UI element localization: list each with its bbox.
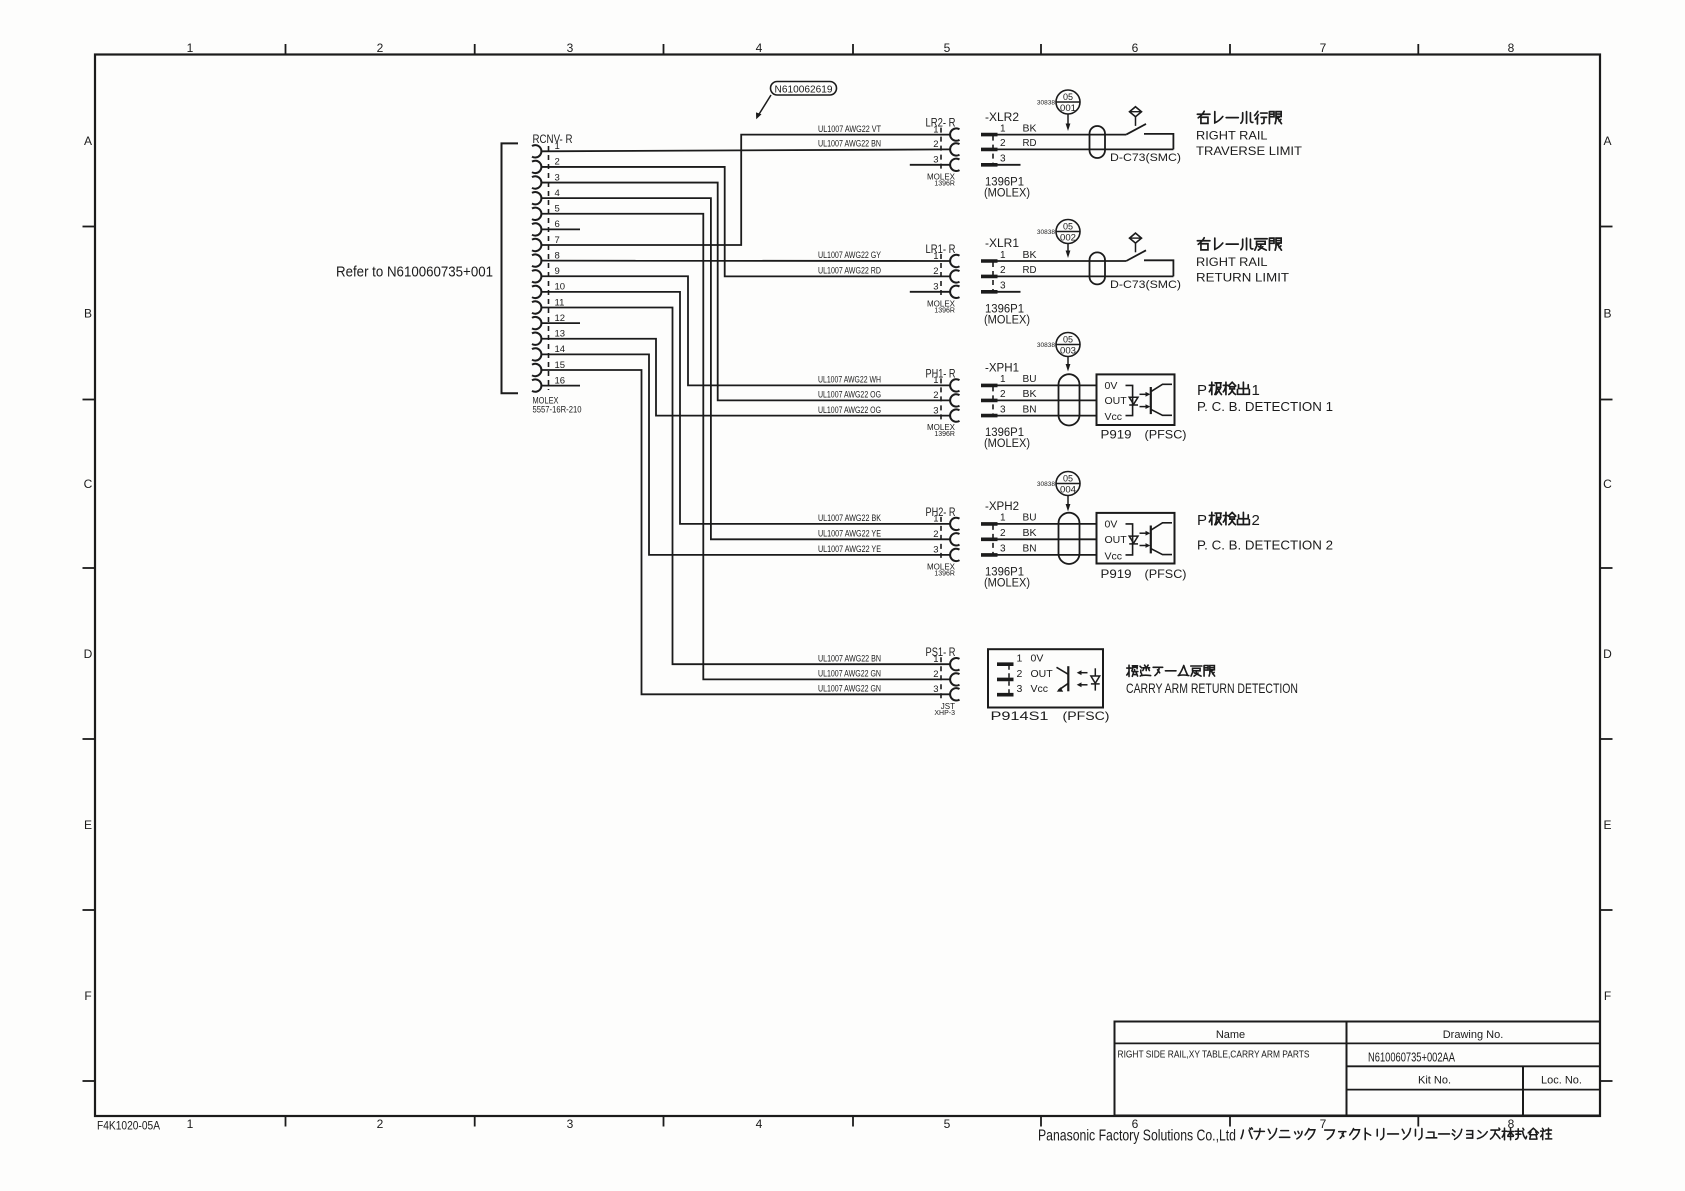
svg-text:(PFSC): (PFSC) [1145, 428, 1187, 442]
magnet actuator diamond (XLR1) [1130, 233, 1142, 252]
svg-text:UL1007 AWG22 WH: UL1007 AWG22 WH [818, 375, 881, 385]
svg-text:3: 3 [1000, 154, 1006, 165]
svg-text:2: 2 [1000, 265, 1006, 276]
P914S1 pin 3 label [1017, 683, 1049, 695]
connector RCNV-R dashed housing line [548, 146, 550, 390]
svg-text:2: 2 [1000, 138, 1006, 149]
svg-text:05: 05 [1063, 92, 1073, 102]
svg-text:1: 1 [1000, 374, 1006, 385]
connector RCNV-R pin contacts (arcs) [532, 145, 541, 392]
plug -XLR2 pin terminals (bars) [981, 135, 998, 165]
svg-text:(MOLEX): (MOLEX) [984, 577, 1030, 589]
svg-text:UL1007 AWG22 RD: UL1007 AWG22 RD [818, 266, 881, 276]
wire stub RCNV-6 [541, 228, 580, 230]
svg-text:E: E [84, 818, 92, 832]
wire RCNV-9 to PH1-R-1 (UL1007 AWG22 WH) [541, 276, 950, 385]
svg-text:004: 004 [1060, 485, 1076, 495]
svg-text:C: C [1603, 477, 1612, 491]
connector PH1-R dashed housing line [940, 378, 942, 422]
svg-text:002: 002 [1060, 233, 1076, 243]
svg-text:Kit No.: Kit No. [1418, 1074, 1451, 1086]
plug -XLR2 pin numbers [1000, 123, 1006, 164]
cable oval (XLR2 circuit) [1090, 126, 1106, 158]
plug -XPH1 part label 1396P1 (MOLEX) [984, 427, 1030, 450]
svg-text:N610060735+002AA: N610060735+002AA [1368, 1051, 1455, 1065]
plug -XLR1 pin terminals (bars) [981, 261, 998, 292]
label: PCB detection 1 (Japanese) P-ban kenshutsu 1 [1197, 382, 1260, 399]
svg-text:RD: RD [1023, 138, 1037, 149]
svg-text:A: A [84, 134, 92, 148]
wire RCNV-7 to LR2-R-1 (UL1007 AWG22 VT) [541, 135, 950, 245]
svg-text:30838: 30838 [1037, 481, 1055, 488]
svg-text:1396R: 1396R [934, 307, 955, 314]
svg-text:3: 3 [1000, 404, 1006, 415]
svg-text:Refer to N610060735+001: Refer to N610060735+001 [336, 265, 493, 281]
svg-text:2: 2 [933, 529, 938, 540]
svg-text:P. C. B. DETECTION 1: P. C. B. DETECTION 1 [1197, 400, 1333, 414]
PH2 light arrows [1140, 531, 1151, 548]
svg-text:BN: BN [1023, 544, 1037, 555]
wire RCNV-1 to LR2-R-2 (UL1007 AWG22 BN) [541, 149, 950, 151]
plug -XPH2 wire color codes [1023, 513, 1037, 555]
P914S1 dashed housing line [1008, 665, 1010, 695]
connector PH2-R dashed housing line [940, 517, 942, 562]
svg-text:RIGHT SIDE RAIL,XY TABLE,CARRY: RIGHT SIDE RAIL,XY TABLE,CARRY ARM PARTS [1118, 1050, 1310, 1061]
connector PH1-R pin contacts [950, 379, 959, 422]
svg-text:N610062619: N610062619 [775, 83, 833, 95]
connector LR1-R dashed housing line [940, 254, 942, 299]
plug -XLR1 part label 1396P1 (MOLEX) [984, 303, 1030, 326]
svg-text:P: P [1197, 382, 1207, 399]
PH1 internal LED (emitter diode) [1129, 397, 1138, 405]
reed switch XLR2: moving blade [1126, 124, 1146, 135]
wire RCNV-14 to PH2-R-3 (UL1007 AWG22 YE) [541, 354, 950, 555]
svg-text:3: 3 [567, 1117, 574, 1131]
svg-text:Panasonic Factory Solutions Co: Panasonic Factory Solutions Co.,Ltd [1038, 1127, 1236, 1144]
svg-text:XHP-3: XHP-3 [934, 710, 955, 717]
column boundary tick marks (bottom edge) [286, 1116, 1419, 1127]
column boundary tick marks (top edge) [286, 44, 1419, 55]
svg-text:UL1007 AWG22 OG: UL1007 AWG22 OG [818, 405, 881, 415]
cable oval (XLR1 circuit) [1090, 252, 1106, 284]
svg-text:5: 5 [944, 1117, 951, 1131]
wire RCNV-3 to PH1-R-2 (UL1007 AWG22 OG) [541, 183, 950, 401]
PH1 phototransistor [1151, 384, 1172, 415]
PH1 light arrows [1140, 392, 1151, 409]
svg-text:Loc. No.: Loc. No. [1541, 1074, 1582, 1086]
wire RCNV-5 to PS1-R-2 (UL1007 AWG22 GN) [541, 214, 950, 680]
wire RCNV-8 to LR1-R-1 (UL1007 AWG22 GY) [541, 260, 950, 262]
svg-text:RIGHT RAIL: RIGHT RAIL [1196, 128, 1268, 142]
title block line under Kit No. [1347, 1089, 1601, 1091]
svg-text:2: 2 [933, 669, 938, 680]
connector PH2-R pin numbers [933, 514, 938, 556]
plug -XLR2 pin-3 stub [998, 164, 1021, 166]
svg-text:LR2- R: LR2- R [926, 116, 956, 130]
plug -XLR2 part label 1396P1 (MOLEX) [984, 176, 1030, 199]
row letters A-F (left) [84, 134, 93, 1003]
svg-text:CARRY ARM RETURN DETECTION: CARRY ARM RETURN DETECTION [1126, 680, 1298, 696]
connector LR2-R pin-3 stub wire [910, 164, 950, 166]
cable oval (PH1 circuit) [1059, 374, 1080, 425]
svg-text:1: 1 [933, 124, 938, 135]
svg-text:1: 1 [1017, 653, 1023, 665]
photo interrupter P914S1 body [988, 649, 1103, 707]
svg-text:C: C [84, 477, 93, 491]
PH2 internal LED bracket [1126, 524, 1133, 555]
column numbers 1-8 (top) [187, 41, 1515, 55]
plug -XPH2 pin terminals (bars) [981, 524, 998, 555]
svg-text:05: 05 [1063, 473, 1073, 483]
svg-text:1: 1 [187, 41, 194, 55]
PH1 part label P919 (PFSC) [1101, 428, 1187, 442]
magnet actuator diamond (XLR2) [1130, 107, 1142, 126]
revision arrow 05/004 [1066, 496, 1071, 512]
svg-text:F: F [1604, 989, 1611, 1003]
wire RCNV-13 to PH1-R-3 (UL1007 AWG22 OG) [541, 339, 950, 416]
svg-text:3: 3 [1000, 281, 1006, 292]
svg-text:05: 05 [1063, 334, 1073, 344]
wire RCNV-2 to LR1-R-2 (UL1007 AWG22 RD) [541, 167, 950, 276]
katakana panasonic factory solutions kabushikigaisha [1241, 1128, 1552, 1140]
plug -XPH2 part label 1396P1 (MOLEX) [984, 566, 1030, 589]
PH1 internal LED bracket [1126, 385, 1133, 415]
title block outline [1115, 1022, 1601, 1116]
P914S1 phototransistor [1057, 666, 1069, 692]
svg-text:5: 5 [944, 41, 951, 55]
svg-text:-XLR2: -XLR2 [985, 112, 1019, 124]
P914S1 pin terminals (bars) [997, 664, 1014, 695]
title block divider Name/Drawing [1346, 1022, 1348, 1116]
svg-text:001: 001 [1060, 103, 1076, 113]
connector LR1-R pin-3 stub wire [910, 291, 950, 293]
svg-text:RCNV- R: RCNV- R [533, 132, 573, 146]
svg-text:7: 7 [1320, 1117, 1327, 1131]
connector LR2-R dashed housing line [940, 128, 942, 172]
svg-text:OUT: OUT [1031, 668, 1054, 680]
label: PCB detection 2 (Japanese) P-ban kenshutsu 2 [1197, 512, 1260, 529]
kanji migi-rail-gyou-gen [1197, 111, 1281, 124]
svg-text:1: 1 [933, 654, 938, 665]
PH2 internal LED (emitter diode) [1129, 536, 1138, 544]
svg-text:F: F [84, 989, 91, 1003]
svg-text:8: 8 [1508, 41, 1515, 55]
svg-text:(PFSC): (PFSC) [1063, 709, 1110, 723]
plug -XLR1 pin numbers [1000, 250, 1006, 292]
svg-text:1396R: 1396R [934, 570, 955, 577]
svg-text:3: 3 [933, 545, 938, 556]
svg-text:6: 6 [1132, 41, 1139, 55]
svg-text:BK: BK [1023, 250, 1037, 261]
svg-text:1: 1 [1000, 513, 1006, 524]
svg-text:(PFSC): (PFSC) [1145, 567, 1187, 581]
svg-text:B: B [84, 307, 92, 321]
PH2 phototransistor [1151, 523, 1172, 555]
P914S1 pin 1 label [1017, 653, 1044, 665]
svg-text:LR1- R: LR1- R [926, 242, 956, 256]
connector PH1-R pin numbers [933, 375, 938, 416]
wire RCNV-4 to PH2-R-2 (UL1007 AWG22 YE) [541, 198, 950, 539]
row letters A-F (right) [1603, 134, 1612, 1003]
svg-text:PH1- R: PH1- R [926, 366, 956, 380]
svg-text:1: 1 [1000, 123, 1006, 134]
svg-text:7: 7 [1320, 41, 1327, 55]
connector LR2-R part label [927, 172, 956, 187]
svg-text:BK: BK [1023, 389, 1037, 400]
svg-text:1: 1 [933, 375, 938, 386]
column numbers 1-8 (bottom) [187, 1117, 1515, 1131]
svg-text:OUT: OUT [1105, 534, 1128, 546]
row boundary tick marks (right edge) [1600, 227, 1613, 1082]
svg-text:P. C. B. DETECTION 2: P. C. B. DETECTION 2 [1197, 538, 1333, 552]
title block Kit/Loc divider [1522, 1066, 1524, 1115]
connector LR1-R part label [927, 299, 956, 314]
row boundary tick marks (left edge) [83, 227, 96, 1082]
svg-text:3: 3 [933, 405, 938, 416]
revision balloon 05/002 [1037, 220, 1080, 244]
svg-text:(MOLEX): (MOLEX) [984, 314, 1030, 326]
svg-text:OUT: OUT [1105, 395, 1128, 407]
plug -XPH1 pin terminals (bars) [981, 385, 998, 415]
photo sensor PH1 body (P919) [1097, 374, 1175, 425]
cable oval (PH2 circuit) [1059, 513, 1080, 564]
wire RCNV-15 to PS1-R-3 (UL1007 AWG22 GN) [541, 370, 950, 694]
svg-text:1: 1 [1000, 250, 1006, 261]
plug -XLR1 dashed housing line [992, 262, 994, 293]
sheet border frame [95, 55, 1600, 1117]
svg-text:D: D [84, 647, 93, 661]
P914S1 light arrows [1077, 670, 1088, 687]
svg-text:2: 2 [1000, 389, 1006, 400]
plug -XPH1 wire color codes [1023, 374, 1037, 415]
svg-text:1: 1 [1252, 382, 1260, 399]
svg-text:UL1007 AWG22 BK: UL1007 AWG22 BK [818, 513, 881, 523]
plug -XPH1 pin numbers [1000, 374, 1006, 415]
connector LR1-R pin numbers [933, 251, 938, 293]
svg-text:0V: 0V [1105, 380, 1118, 392]
svg-text:-XPH2: -XPH2 [985, 501, 1019, 513]
svg-text:Vcc: Vcc [1031, 683, 1049, 695]
svg-text:2: 2 [1252, 512, 1260, 529]
revision balloon 05/003 [1037, 333, 1080, 357]
part label P914S1 (PFSC) [991, 709, 1110, 723]
connector PS1-R part label [934, 702, 955, 717]
revision arrow 05/001 [1066, 114, 1071, 131]
svg-text:UL1007 AWG22 BN: UL1007 AWG22 BN [818, 653, 881, 663]
svg-text:PS1- R: PS1- R [926, 645, 956, 659]
connector RCNV-R cable bracket [502, 143, 519, 393]
svg-text:TRAVERSE LIMIT: TRAVERSE LIMIT [1196, 144, 1303, 158]
svg-text:05: 05 [1063, 221, 1073, 231]
svg-text:BU: BU [1023, 513, 1037, 524]
connector PS1-R pin numbers [933, 654, 938, 695]
svg-text:-XPH1: -XPH1 [985, 363, 1019, 375]
svg-text:1: 1 [933, 251, 938, 262]
svg-text:2: 2 [377, 1117, 384, 1131]
connector PS1-R dashed housing line [940, 657, 942, 701]
plug -XLR2 lead wires [998, 135, 1174, 150]
svg-text:0V: 0V [1031, 653, 1044, 665]
svg-text:P919: P919 [1101, 567, 1132, 581]
plug -XLR2 wire color codes [1023, 123, 1037, 149]
revision balloon 05/001 [1037, 90, 1080, 114]
svg-text:2: 2 [933, 139, 938, 150]
svg-text:3: 3 [1000, 544, 1006, 555]
connector PS1-R pin contacts [950, 658, 959, 700]
svg-text:1: 1 [933, 514, 938, 525]
svg-text:2: 2 [933, 266, 938, 277]
svg-text:2: 2 [377, 41, 384, 55]
svg-text:5557-16R-210: 5557-16R-210 [533, 405, 582, 415]
connector PH2-R pin contacts [950, 518, 959, 561]
wire stub RCNV-12 [541, 322, 580, 324]
photo sensor PH2 body (P919) [1097, 513, 1175, 564]
connector LR2-R pin contacts [950, 128, 959, 171]
svg-text:RETURN LIMIT: RETURN LIMIT [1196, 271, 1290, 285]
plug -XPH2 pin numbers [1000, 513, 1006, 555]
plug -XPH2 dashed housing line [992, 525, 994, 556]
svg-text:30838: 30838 [1037, 342, 1055, 349]
svg-text:BU: BU [1023, 374, 1037, 385]
svg-text:2: 2 [1000, 528, 1006, 539]
svg-text:RD: RD [1023, 265, 1037, 276]
svg-text:P914S1: P914S1 [991, 709, 1049, 723]
reed switch XLR2: fixed contact and return loop [1144, 134, 1173, 150]
svg-text:Vcc: Vcc [1105, 411, 1123, 423]
PH2 part label P919 (PFSC) [1101, 567, 1187, 581]
svg-text:RIGHT RAIL: RIGHT RAIL [1196, 255, 1268, 269]
svg-text:3: 3 [567, 41, 574, 55]
svg-text:UL1007 AWG22 BN: UL1007 AWG22 BN [818, 139, 881, 149]
kanji hansou-arm-modo-gen [1127, 665, 1215, 676]
wire stub RCNV-16 [541, 385, 580, 387]
plug -XLR1 lead wires [998, 261, 1174, 276]
svg-text:Name: Name [1216, 1029, 1245, 1041]
connector RCNV-R part label MOLEX 5557-16R-210 [533, 396, 582, 415]
svg-text:1: 1 [187, 1117, 194, 1131]
svg-text:(MOLEX): (MOLEX) [984, 438, 1030, 450]
title block header underline [1115, 1042, 1601, 1044]
connector LR2-R pin numbers [933, 124, 938, 165]
svg-text:UL1007 AWG22 YE: UL1007 AWG22 YE [818, 529, 881, 539]
svg-text:A: A [1603, 134, 1611, 148]
svg-text:30838: 30838 [1037, 100, 1055, 107]
kanji ita-ken-shutsu [1209, 382, 1249, 394]
kanji migi-rail-modo-gen [1197, 238, 1281, 250]
svg-text:BN: BN [1023, 404, 1037, 415]
svg-text:3: 3 [1017, 683, 1023, 695]
svg-text:(MOLEX): (MOLEX) [984, 187, 1030, 199]
svg-text:P: P [1197, 512, 1207, 529]
svg-text:D: D [1603, 647, 1612, 661]
svg-text:BK: BK [1023, 123, 1037, 134]
plug -XPH1 dashed housing line [992, 386, 994, 416]
svg-text:UL1007 AWG22 GY: UL1007 AWG22 GY [818, 250, 881, 260]
plug -XLR1 wire color codes [1023, 250, 1037, 276]
plug -XLR2 dashed housing line [992, 136, 994, 166]
svg-text:UL1007 AWG22 GN: UL1007 AWG22 GN [818, 669, 881, 679]
svg-text:30838: 30838 [1037, 229, 1055, 236]
svg-text:D-C73(SMC): D-C73(SMC) [1110, 152, 1181, 164]
reference flag leader arrow [756, 95, 771, 119]
svg-text:UL1007 AWG22 GN: UL1007 AWG22 GN [818, 684, 881, 694]
svg-text:3: 3 [933, 684, 938, 695]
svg-text:003: 003 [1060, 346, 1076, 356]
title block line under drawing number [1347, 1065, 1601, 1067]
svg-text:4: 4 [756, 41, 763, 55]
svg-text:BK: BK [1023, 528, 1037, 539]
svg-text:1396R: 1396R [934, 431, 955, 438]
svg-text:UL1007 AWG22 YE: UL1007 AWG22 YE [818, 544, 881, 554]
connector LR1-R pin contacts [950, 255, 959, 298]
svg-text:E: E [1603, 818, 1611, 832]
svg-text:0V: 0V [1105, 519, 1118, 531]
svg-text:Vcc: Vcc [1105, 550, 1123, 562]
svg-text:-XLR1: -XLR1 [985, 238, 1019, 250]
connector PH1-R part label [927, 423, 956, 438]
svg-text:1396R: 1396R [934, 180, 955, 187]
kanji ita-ken-shutsu 2 [1209, 512, 1249, 524]
svg-text:4: 4 [756, 1117, 763, 1131]
svg-text:2: 2 [1017, 668, 1023, 680]
reed switch XLR1: fixed contact and return loop [1144, 260, 1173, 276]
wire RCNV-11 to PS1-R-1 (UL1007 AWG22 BN) [541, 308, 950, 665]
revision arrow 05/003 [1066, 357, 1071, 372]
svg-text:D-C73(SMC): D-C73(SMC) [1110, 279, 1181, 291]
P914S1 LED (vertical) [1091, 668, 1100, 690]
reed switch XLR1: moving blade [1126, 250, 1146, 261]
svg-text:Drawing No.: Drawing No. [1443, 1029, 1504, 1041]
revision arrow 05/002 [1066, 244, 1071, 259]
svg-text:F4K1020-05A: F4K1020-05A [97, 1121, 160, 1133]
connector RCNV-R pin numbers 1-16 [555, 141, 566, 386]
reference flag N610062619 (stadium outline) [771, 82, 837, 96]
plug -XLR1 pin-3 stub [998, 291, 1021, 293]
plug -XPH2 lead wires [998, 524, 1098, 555]
svg-text:PH2- R: PH2- R [926, 505, 956, 519]
svg-text:2: 2 [933, 390, 938, 401]
plug -XPH1 lead wires [998, 385, 1097, 415]
svg-text:B: B [1603, 307, 1611, 321]
revision balloon 05/004 [1037, 472, 1080, 496]
svg-text:UL1007 AWG22 VT: UL1007 AWG22 VT [818, 124, 882, 134]
P914S1 pin 2 label [1017, 668, 1054, 680]
svg-text:UL1007 AWG22 OG: UL1007 AWG22 OG [818, 390, 881, 400]
svg-text:P919: P919 [1101, 428, 1132, 442]
wire RCNV-10 to PH2-R-1 (UL1007 AWG22 BK) [541, 292, 950, 524]
connector PH2-R part label [927, 562, 956, 577]
